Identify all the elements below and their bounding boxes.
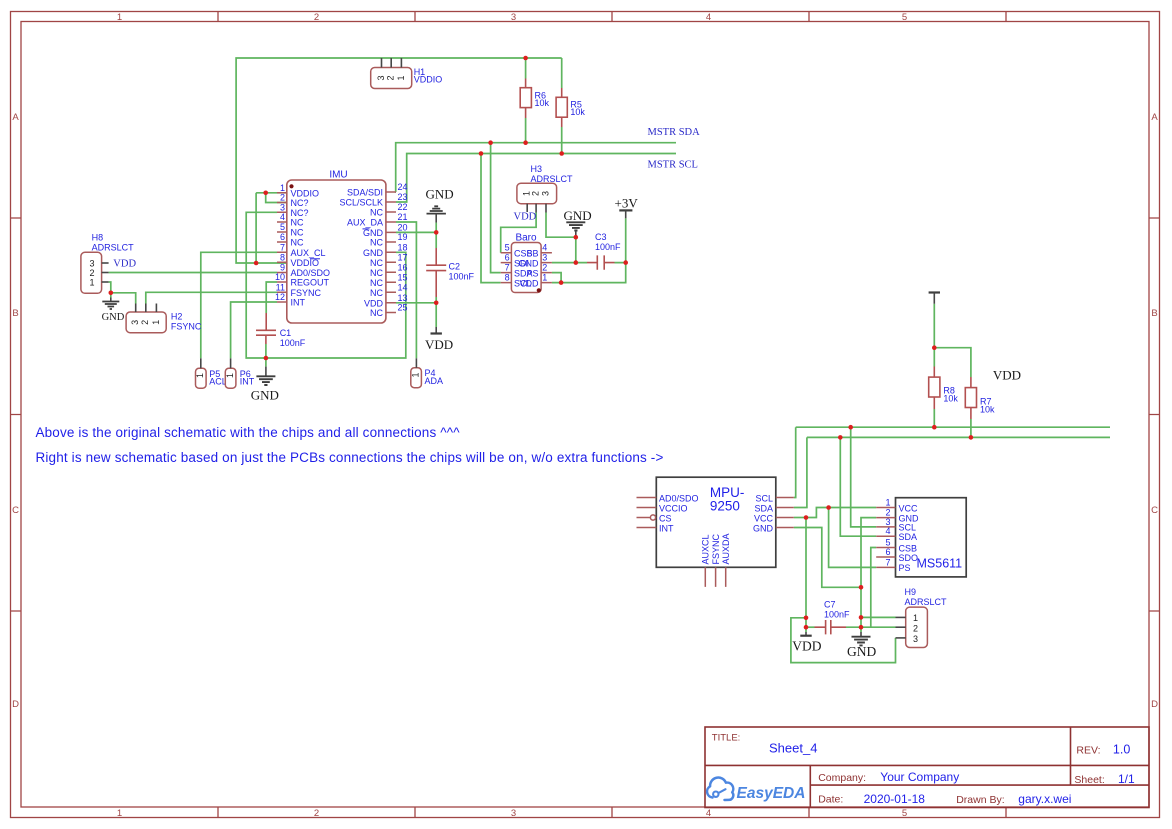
wire VCC jog to MS5611 VCC: [806, 508, 829, 518]
svg-text:2: 2: [913, 624, 918, 634]
svg-text:13: 13: [398, 293, 408, 303]
wire MPU GND to MS5611 GND net: [794, 528, 861, 588]
svg-text:Drawn By:: Drawn By:: [956, 794, 1004, 806]
Baro left pin names: [514, 249, 533, 289]
wire VDDIO net (H1 to IMU pins 1,2,8): [236, 58, 562, 263]
svg-text:2: 2: [530, 191, 540, 196]
svg-text:1: 1: [280, 183, 285, 193]
svg-text:2: 2: [314, 808, 319, 819]
junction MPU VCC: [804, 515, 809, 520]
wire H8 pin1 to GND junction: [109, 282, 111, 293]
svg-text:9250: 9250: [710, 499, 740, 514]
junction VDD bar / R7: [932, 345, 937, 350]
svg-text:AUX_DA: AUX_DA: [347, 218, 383, 228]
svg-text:INT: INT: [240, 377, 255, 387]
svg-text:3: 3: [90, 258, 95, 268]
wire H3 pin3 to GND flag: [546, 213, 576, 238]
svg-text:4: 4: [706, 808, 711, 819]
svg-text:3: 3: [540, 191, 550, 196]
svg-text:1: 1: [410, 372, 420, 377]
svg-text:6: 6: [885, 547, 890, 557]
junction at pin8 row: [254, 261, 259, 266]
svg-text:21: 21: [398, 212, 408, 222]
Baro left pin numbers: [505, 243, 510, 283]
wire R5 top lead to H1 net: [561, 58, 563, 88]
svg-text:NC: NC: [370, 308, 383, 318]
svg-text:NC: NC: [370, 278, 383, 288]
svg-text:C7: C7: [824, 600, 836, 610]
junction MSTR SDA / R6: [523, 140, 528, 145]
junction bus1 / MS5611 SCL: [848, 425, 853, 430]
wire IMU pin13 VDD to C2 bottom: [396, 302, 436, 304]
svg-text:INT: INT: [659, 523, 674, 533]
H2 pin 2: [145, 304, 147, 313]
connector H2 FSYNC: [126, 304, 202, 333]
MPU left pin stubs: [637, 498, 657, 528]
wire IMU pin9 AD0/SDO to H8 pin2: [109, 272, 277, 274]
junction MSTR SDA / Baro SDA: [488, 140, 493, 145]
IMU pin8 VDDIO overline: [310, 258, 320, 260]
IMU right pin numbers: [398, 182, 408, 313]
svg-text:25: 25: [398, 303, 408, 313]
Baro pin1 marker: [537, 288, 541, 292]
H9 pin 1: [896, 616, 906, 618]
svg-text:20: 20: [398, 222, 408, 232]
svg-text:NC: NC: [370, 208, 383, 218]
Baro right pin stubs 4-1: [541, 253, 552, 283]
junction MSTR SCL / R5: [559, 151, 564, 156]
power flag VDD below C7: [792, 632, 821, 654]
svg-text:B: B: [12, 308, 18, 319]
svg-text:A: A: [12, 112, 19, 123]
wire H9 pin1: [861, 616, 896, 618]
junction C3 / +3V: [623, 260, 628, 265]
svg-text:NC: NC: [370, 288, 383, 298]
ground symbol below C1: [251, 367, 279, 403]
MS5611 pin names: [899, 503, 920, 573]
MPU right pin names: [753, 493, 774, 533]
svg-text:1: 1: [117, 12, 122, 23]
svg-text:Sheet_4: Sheet_4: [769, 741, 817, 756]
junction GND net: [859, 585, 864, 590]
svg-text:5: 5: [280, 222, 285, 232]
svg-text:H9: H9: [905, 587, 917, 597]
svg-text:1: 1: [225, 373, 235, 378]
svg-text:5: 5: [902, 12, 907, 23]
svg-text:Company:: Company:: [818, 772, 866, 784]
wire C3 right to +3V: [615, 218, 626, 262]
junction at pin1 of IMU: [263, 191, 268, 196]
IC MPU-9250: [637, 477, 794, 587]
junction VDD / C7 left: [804, 625, 809, 630]
svg-text:8: 8: [505, 273, 510, 283]
svg-text:10: 10: [275, 272, 285, 282]
svg-text:FSYNC: FSYNC: [171, 322, 202, 332]
svg-text:12: 12: [275, 292, 285, 302]
svg-text:AD0/SDO: AD0/SDO: [291, 268, 331, 278]
svg-text:+3V: +3V: [615, 196, 639, 211]
svg-text:VDD: VDD: [993, 368, 1021, 383]
svg-text:GND: GND: [426, 187, 454, 202]
svg-text:1: 1: [151, 320, 161, 325]
MPU right pin stubs: [776, 498, 794, 528]
svg-text:D: D: [1151, 699, 1158, 710]
MPU CS inversion bubble: [650, 515, 655, 520]
svg-text:MSTR SDA: MSTR SDA: [648, 127, 701, 138]
svg-text:8: 8: [280, 252, 285, 262]
svg-text:4: 4: [280, 212, 285, 222]
H1 pin 3: [381, 58, 383, 68]
power flag VDD bar above R8: [929, 293, 940, 304]
H2 pin 3: [135, 304, 137, 313]
svg-text:ADRSLCT: ADRSLCT: [92, 243, 135, 253]
svg-text:GND: GND: [519, 259, 540, 269]
svg-text:Sheet:: Sheet:: [1074, 774, 1104, 786]
svg-text:VDDIO: VDDIO: [414, 75, 443, 85]
svg-text:EasyEDA: EasyEDA: [737, 785, 806, 802]
wire bus2 MSTR SDA right section: [807, 436, 1110, 438]
EasyEDA logo: [707, 778, 805, 802]
junction MS5611 VCC: [826, 505, 831, 510]
svg-text:7: 7: [280, 242, 285, 252]
H3 pin 3: [545, 204, 547, 213]
svg-text:NC?: NC?: [291, 198, 309, 208]
connector H8 ADRSLCT: [81, 233, 134, 294]
svg-text:3: 3: [280, 202, 285, 212]
svg-text:H3: H3: [531, 164, 543, 174]
wire GND junction to H2 pin3: [111, 293, 136, 304]
svg-text:SCL/SCLK: SCL/SCLK: [339, 198, 383, 208]
resistor R5 10k: [556, 88, 585, 127]
wire MSTR SDA net: [396, 118, 676, 273]
svg-text:TITLE:: TITLE:: [712, 733, 741, 744]
wire IMU pin12 INT to P6: [231, 302, 277, 358]
svg-text:2: 2: [90, 268, 95, 278]
wire +3V net down to Baro VDD pin1: [552, 263, 626, 283]
svg-text:1: 1: [117, 808, 122, 819]
IC MS5611: [876, 498, 966, 577]
svg-text:PS: PS: [899, 563, 911, 573]
svg-text:NC: NC: [370, 258, 383, 268]
svg-text:10k: 10k: [570, 107, 585, 117]
svg-text:GND: GND: [847, 644, 876, 659]
wire MS5611 GND pin2 vertical: [861, 518, 876, 632]
svg-text:100nF: 100nF: [595, 242, 621, 252]
H1 pin 1: [400, 58, 402, 68]
svg-text:NC: NC: [291, 228, 304, 238]
wire H3 pin2 to Baro CSB: [501, 213, 536, 253]
power flag +3V: [615, 196, 639, 219]
Baro right pin names (overlapping): [519, 249, 540, 289]
svg-text:Your Company: Your Company: [880, 770, 959, 784]
svg-text:VDD: VDD: [113, 259, 136, 270]
svg-text:REV:: REV:: [1076, 745, 1100, 757]
MPU left pin names: [659, 493, 699, 533]
svg-text:NC: NC: [370, 268, 383, 278]
connector P5 ACL: [195, 358, 227, 388]
NOTES_TEXT: [36, 425, 664, 465]
svg-text:100nF: 100nF: [280, 338, 306, 348]
connector P6 INT: [225, 358, 255, 388]
capacitor C2 100nF: [426, 248, 474, 297]
wire VDD bar to R8 R7 tops: [933, 304, 935, 367]
svg-text:C: C: [1151, 505, 1158, 516]
MS5611 pin numbers: [885, 498, 890, 568]
svg-text:NC: NC: [291, 218, 304, 228]
svg-text:10k: 10k: [943, 394, 958, 404]
svg-text:CSB: CSB: [899, 543, 918, 553]
svg-text:6: 6: [505, 253, 510, 263]
svg-text:9: 9: [280, 263, 285, 273]
svg-text:GND: GND: [251, 388, 279, 403]
svg-text:5: 5: [902, 808, 907, 819]
svg-text:2: 2: [314, 12, 319, 23]
wire VDD net vertical (MPU VCC to C7): [805, 518, 807, 628]
IMU pin1 marker: [289, 184, 293, 188]
svg-text:Above is the original schemati: Above is the original schematic with the…: [36, 425, 461, 440]
IMU left pin numbers: [275, 183, 285, 302]
svg-text:4: 4: [885, 526, 890, 536]
junction C2 top: [434, 230, 439, 235]
H9 pin 3: [896, 637, 906, 639]
svg-text:VCCIO: VCCIO: [659, 503, 688, 513]
wire R8 bottom to bus1: [933, 409, 935, 427]
svg-text:3: 3: [511, 808, 516, 819]
svg-text:23: 23: [398, 192, 408, 202]
svg-text:100nF: 100nF: [449, 272, 475, 282]
svg-text:7: 7: [505, 263, 510, 273]
wire IMU pin7 AUX_CL to P5: [201, 252, 277, 358]
wire MSTR SCL net: [396, 127, 676, 283]
svg-text:SDA: SDA: [754, 503, 773, 513]
svg-text:2: 2: [280, 193, 285, 203]
svg-text:SCL: SCL: [755, 493, 773, 503]
svg-text:AUX_CL: AUX_CL: [291, 248, 326, 258]
svg-text:ADA: ADA: [425, 376, 444, 386]
svg-text:ADRSLCT: ADRSLCT: [905, 597, 948, 607]
svg-text:VDD: VDD: [364, 298, 384, 308]
connector H1 VDDIO: [371, 58, 443, 89]
svg-text:100nF: 100nF: [824, 610, 850, 620]
junction H1 wire / R6: [523, 56, 528, 61]
svg-text:GND: GND: [564, 208, 592, 223]
resistor R8 10k: [929, 367, 959, 410]
svg-text:2: 2: [140, 320, 150, 325]
wire Baro GND row to C3: [552, 262, 587, 264]
svg-text:NC: NC: [370, 238, 383, 248]
svg-text:PS: PS: [526, 269, 538, 279]
svg-text:INT: INT: [291, 298, 306, 308]
svg-text:Right is new schematic based o: Right is new schematic based on just the…: [36, 450, 664, 465]
svg-text:VCC: VCC: [899, 503, 919, 513]
svg-text:1: 1: [90, 277, 95, 287]
IC Baro: [501, 233, 552, 293]
svg-text:VDD: VDD: [792, 639, 821, 654]
svg-text:14: 14: [398, 282, 408, 292]
svg-text:FSYNC: FSYNC: [711, 533, 721, 564]
svg-text:11: 11: [276, 282, 285, 292]
svg-text:1: 1: [542, 273, 547, 283]
svg-text:1: 1: [885, 498, 890, 508]
wire MPU SCL to bus1: [794, 427, 796, 497]
svg-text:22: 22: [398, 202, 408, 212]
Baro right pin numbers: [542, 243, 547, 283]
H8 pin 1: [102, 281, 109, 283]
wire C2 GND stem: [435, 223, 437, 248]
svg-text:D: D: [12, 699, 19, 710]
wire MPU SDA to bus2: [794, 437, 807, 507]
svg-text:GND: GND: [753, 523, 774, 533]
svg-text:C2: C2: [449, 262, 461, 272]
junction H8 pin1 / GND / H2 pin3: [109, 291, 114, 296]
svg-text:CS: CS: [659, 513, 672, 523]
svg-text:1: 1: [913, 613, 918, 623]
H9 pin 2: [896, 626, 906, 628]
H1 pin 2: [390, 58, 392, 68]
wire MS5611 SCL pin3 to bus1: [851, 427, 877, 527]
wire MPU VCC to VDD net: [794, 517, 806, 519]
junction C1 bottom: [264, 356, 269, 361]
svg-text:SB: SB: [526, 249, 538, 259]
junction Baro pin1 row: [559, 280, 564, 285]
svg-text:GND: GND: [363, 248, 384, 258]
svg-text:5: 5: [505, 243, 510, 253]
wire IMU pin21 AUX_DA to P4: [396, 222, 416, 358]
svg-text:VCC: VCC: [754, 513, 774, 523]
op-amp U? IMU chip: [275, 170, 408, 324]
wire bus1 MSTR SCL right section: [796, 426, 1110, 428]
svg-text:3: 3: [542, 253, 547, 263]
svg-text:3: 3: [130, 320, 140, 325]
svg-text:19: 19: [398, 232, 408, 242]
svg-text:VDD: VDD: [425, 337, 453, 352]
svg-text:AUXDA: AUXDA: [721, 533, 731, 564]
svg-text:2020-01-18: 2020-01-18: [864, 792, 926, 806]
svg-text:15: 15: [398, 272, 408, 282]
svg-text:IMU: IMU: [329, 170, 347, 181]
power flag VDD below C2: [425, 327, 453, 352]
connector H9 ADRSLCT: [896, 587, 948, 648]
junction VDD / H9 pin3 loop: [804, 616, 809, 621]
H2 pin 1: [155, 304, 157, 313]
wire GND junction stem: [110, 293, 112, 298]
svg-text:2: 2: [386, 75, 396, 80]
svg-text:2: 2: [542, 263, 547, 273]
svg-text:MSTR SCL: MSTR SCL: [648, 160, 698, 171]
svg-text:1: 1: [195, 373, 205, 378]
svg-text:VDD: VDD: [514, 212, 537, 223]
junction H3 GND: [574, 235, 579, 240]
wire VDD flag stem: [805, 627, 807, 632]
wire MS5611 CSB pin5 to H9 pin2: [871, 548, 876, 628]
wire R6 top lead to H1 net: [525, 58, 527, 79]
wire Baro PS pin2 to VDD net: [552, 273, 561, 283]
resistor R6 10k: [520, 79, 549, 119]
IMU right pin stubs 24,23,22,21,20,19,18,17,16,15,14,13,25: [386, 192, 396, 313]
IMU pin20 GND overline: [363, 228, 370, 230]
svg-text:NC: NC: [291, 238, 304, 248]
svg-text:24: 24: [398, 182, 408, 192]
wire C1 bottom to GND: [265, 344, 267, 367]
svg-text:1: 1: [396, 75, 406, 80]
MPU bottom pin stubs AUXCL FSYNC AUXDA: [705, 567, 725, 587]
H8 pin 3: [102, 262, 109, 264]
wire GND flag down to Baro GND row: [575, 237, 577, 262]
wire VCC to MS5611 PS pin7: [829, 508, 877, 568]
wire R7 bottom to bus2: [970, 419, 972, 437]
svg-text:C1: C1: [280, 328, 292, 338]
capacitor C7 100nF: [815, 600, 851, 635]
svg-text:10k: 10k: [535, 98, 550, 108]
junction H9 pin1 / GND: [859, 615, 864, 620]
wire IMU pin3 down to C1 net: [246, 212, 277, 358]
svg-text:SDA: SDA: [899, 532, 918, 542]
wire IMU pin10 REGOUT to C1 top: [266, 282, 277, 313]
svg-text:1.0: 1.0: [1113, 743, 1130, 757]
svg-text:7: 7: [885, 557, 890, 567]
wire MS5611 SDA pin4 to bus2: [840, 437, 876, 536]
junction C7 right / GND: [859, 625, 864, 630]
wire MS5611 VCC pin1: [829, 507, 877, 509]
ground symbol above C2: [426, 187, 454, 223]
svg-text:18: 18: [398, 242, 408, 252]
svg-text:AUXCL: AUXCL: [701, 534, 711, 564]
svg-text:GND: GND: [102, 312, 125, 323]
svg-text:1/1: 1/1: [1118, 772, 1135, 786]
wire C7 left lead: [806, 626, 815, 628]
H3 pin 2: [535, 204, 537, 213]
svg-text:AD0/SDO: AD0/SDO: [659, 493, 699, 503]
IMU left pin stubs 1-12: [277, 193, 287, 302]
svg-text:gary.x.wei: gary.x.wei: [1018, 792, 1071, 806]
svg-text:4: 4: [706, 12, 711, 23]
svg-text:REGOUT: REGOUT: [291, 278, 330, 288]
junction bus1 / R8: [932, 425, 937, 430]
svg-text:FSYNC: FSYNC: [291, 288, 322, 298]
capacitor C1 100nF: [256, 313, 306, 348]
svg-text:4: 4: [542, 243, 547, 253]
svg-text:10k: 10k: [980, 405, 995, 415]
svg-text:5: 5: [885, 538, 890, 548]
svg-text:C: C: [12, 505, 19, 516]
svg-text:B: B: [1151, 308, 1157, 319]
svg-text:NC?: NC?: [291, 208, 309, 218]
title block: [705, 727, 1149, 808]
junction C2 bottom: [434, 301, 439, 306]
svg-text:VDDIO: VDDIO: [291, 188, 320, 198]
svg-text:17: 17: [398, 252, 408, 262]
svg-text:H2: H2: [171, 312, 183, 322]
IMU right pin names: [339, 188, 383, 319]
junction bus2 / MS5611 SDA: [838, 435, 843, 440]
svg-text:16: 16: [398, 262, 408, 272]
junction bus2 / R7: [969, 435, 974, 440]
capacitor C3 100nF: [587, 232, 621, 270]
svg-text:Date:: Date:: [818, 794, 843, 806]
svg-text:VDD: VDD: [519, 279, 539, 289]
svg-text:3: 3: [376, 75, 386, 80]
ground symbol at H8: [102, 298, 125, 324]
wire C2 bottom to VDD flag: [435, 297, 437, 327]
junction MSTR SCL / Baro SCL: [479, 151, 484, 156]
ground symbol near H3: [564, 208, 592, 237]
ground symbol below C7: [847, 632, 876, 659]
svg-text:6: 6: [280, 232, 285, 242]
H8 pin 2: [102, 272, 109, 274]
svg-text:SDA/SDI: SDA/SDI: [347, 188, 383, 198]
wire H9 pin3 loop: [791, 618, 896, 663]
wire C7 right to H9 pin2 row: [846, 626, 896, 628]
